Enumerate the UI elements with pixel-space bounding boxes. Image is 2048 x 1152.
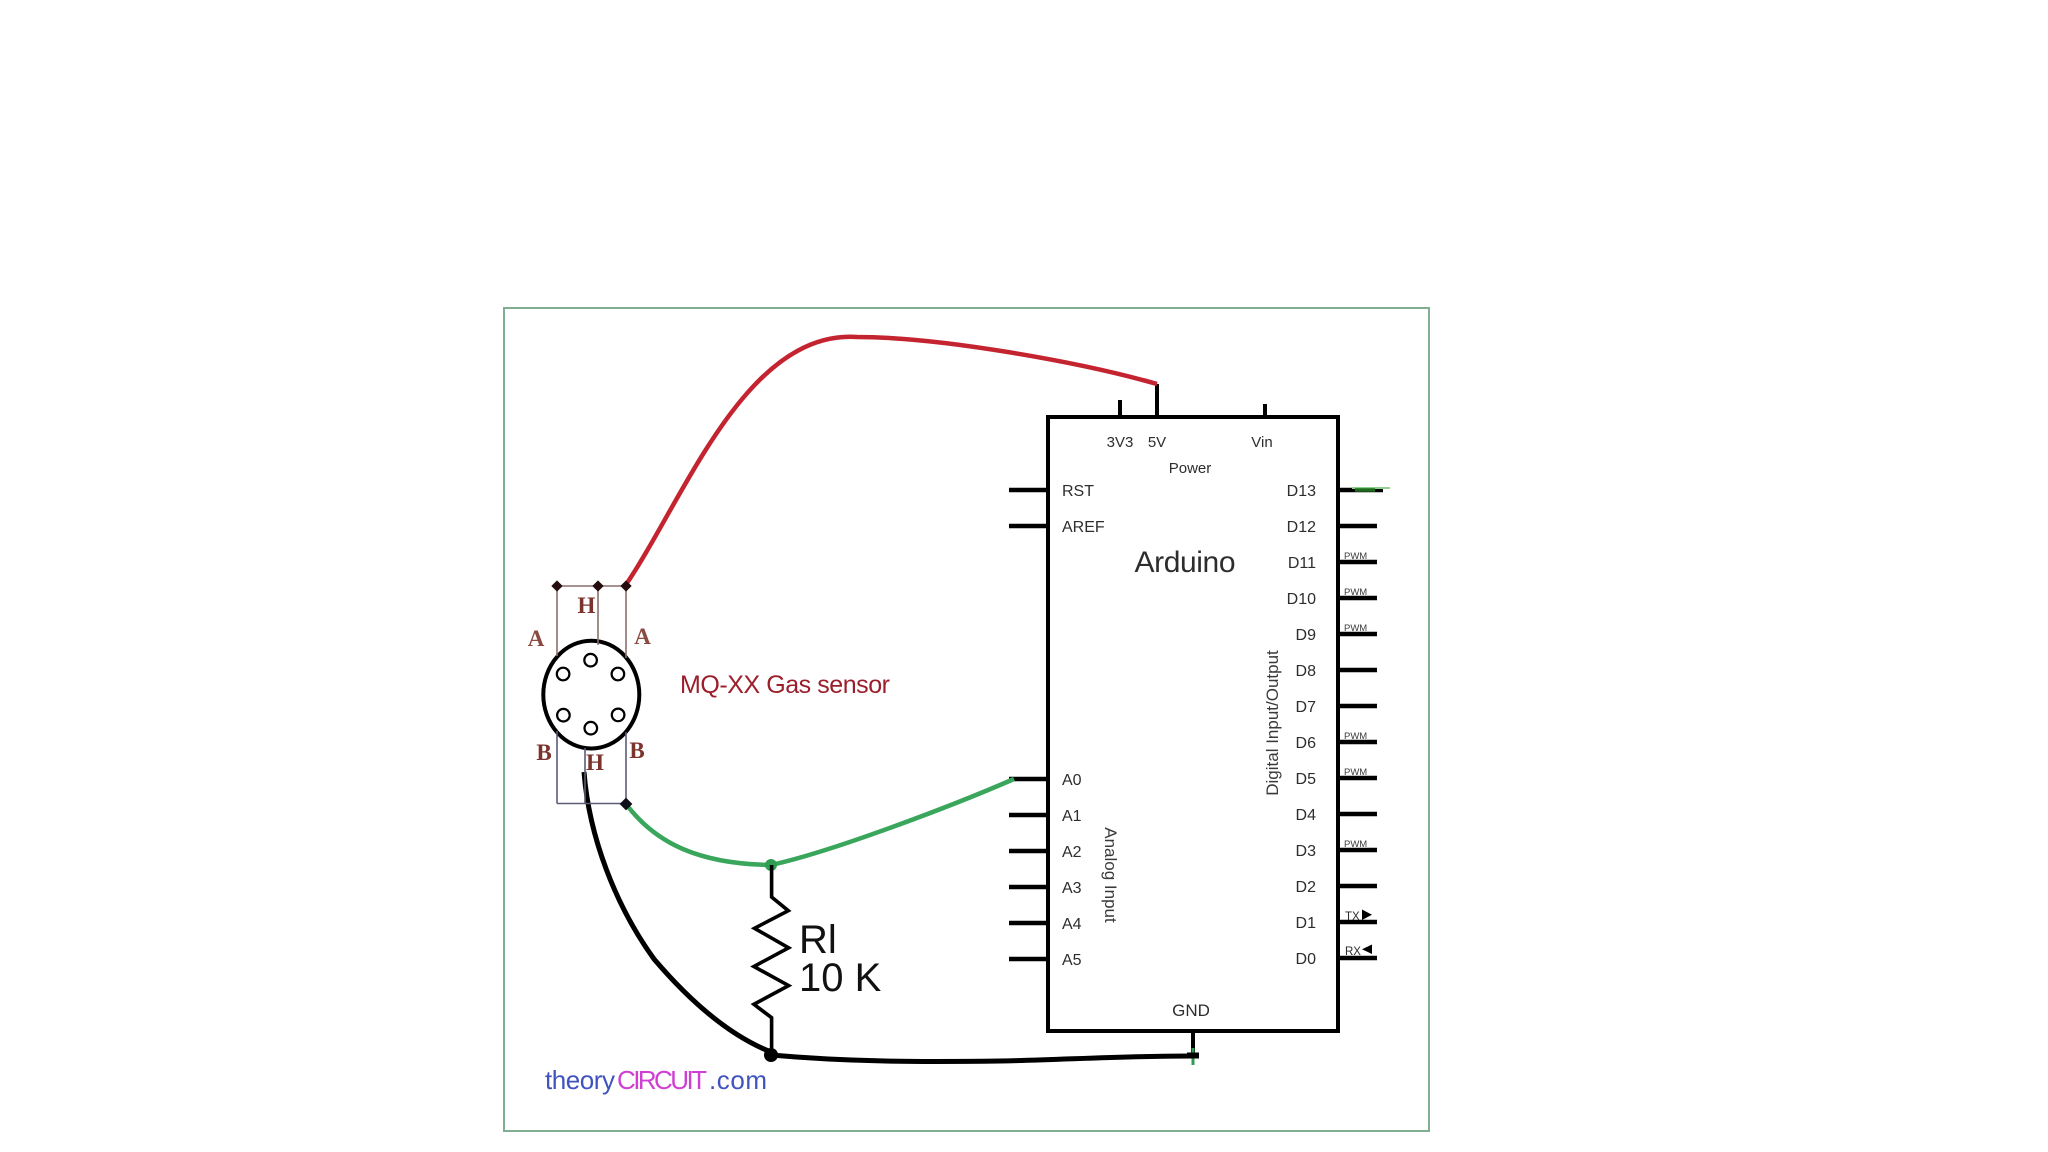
svg-text:RX: RX	[1345, 946, 1361, 958]
svg-text:AREF: AREF	[1062, 519, 1105, 536]
svg-text:D7: D7	[1296, 699, 1317, 716]
svg-text:A5: A5	[1062, 952, 1082, 969]
svg-text:theory: theory	[545, 1065, 615, 1095]
pin AREF	[1009, 519, 1105, 536]
pin D0	[1296, 945, 1377, 969]
pin D10	[1287, 587, 1377, 608]
pin 3V3	[1107, 400, 1134, 451]
pin 5V	[1148, 384, 1166, 451]
pin A1	[1009, 808, 1082, 825]
node green junction	[765, 859, 777, 871]
svg-text:Arduino: Arduino	[1135, 546, 1236, 579]
svg-text:D3: D3	[1296, 843, 1317, 860]
pin D1	[1296, 910, 1377, 933]
pin D11	[1288, 551, 1377, 572]
wire black sensor to junction	[584, 772, 771, 1052]
arduino U1 body	[1048, 417, 1338, 1031]
svg-text:PWM: PWM	[1344, 587, 1367, 598]
svg-text:A4: A4	[1062, 916, 1082, 933]
svg-text:D0: D0	[1296, 951, 1317, 968]
svg-text:GND: GND	[1172, 1001, 1210, 1020]
svg-text:H: H	[586, 750, 604, 775]
pin A5	[1009, 952, 1082, 969]
node sensor top pins	[551, 580, 631, 591]
svg-text:3V3: 3V3	[1107, 434, 1134, 451]
svg-text:D5: D5	[1296, 771, 1317, 788]
pin D12	[1287, 519, 1377, 536]
pin D7	[1296, 699, 1377, 716]
pin GND	[1172, 1001, 1210, 1056]
node black junction	[764, 1048, 778, 1062]
svg-text:TX: TX	[1345, 911, 1360, 923]
svg-text:D11: D11	[1288, 555, 1316, 572]
svg-text:D6: D6	[1296, 735, 1317, 752]
pin D4	[1296, 807, 1377, 824]
svg-text:A: A	[528, 626, 545, 651]
svg-text:PWM: PWM	[1344, 839, 1367, 850]
pin A0	[1009, 772, 1082, 789]
svg-text:PWM: PWM	[1344, 623, 1367, 634]
svg-text:Analog Input: Analog Input	[1101, 827, 1120, 923]
sensor bottom pin wires	[557, 731, 626, 804]
svg-text:D9: D9	[1296, 627, 1317, 644]
svg-text:D13: D13	[1287, 483, 1316, 500]
node sensor bottom-right pin	[620, 798, 633, 811]
svg-text:5V: 5V	[1148, 434, 1166, 451]
svg-text:B: B	[536, 740, 551, 765]
wire red 5V	[625, 337, 1157, 586]
svg-text:10 K: 10 K	[799, 956, 882, 1000]
pin D2	[1296, 879, 1377, 896]
wire black junction to GND	[771, 1055, 1193, 1061]
svg-text:PWM: PWM	[1344, 551, 1367, 562]
pin D3	[1296, 839, 1377, 860]
svg-text:.com: .com	[709, 1065, 767, 1095]
pin A2	[1009, 844, 1082, 861]
svg-text:A3: A3	[1062, 880, 1082, 897]
svg-text:A0: A0	[1062, 772, 1082, 789]
svg-text:H: H	[578, 593, 596, 618]
svg-text:PWM: PWM	[1344, 767, 1367, 778]
pin A3	[1009, 880, 1082, 897]
sensor pin holes	[557, 654, 625, 735]
label theoryCIRCUIT.com	[545, 1065, 767, 1095]
pin D6	[1296, 731, 1377, 752]
svg-text:PWM: PWM	[1344, 731, 1367, 742]
svg-text:A1: A1	[1062, 808, 1082, 825]
svg-text:A2: A2	[1062, 844, 1082, 861]
svg-text:D4: D4	[1296, 807, 1317, 824]
svg-text:D2: D2	[1296, 879, 1317, 896]
svg-text:MQ-XX Gas sensor: MQ-XX Gas sensor	[680, 671, 890, 699]
svg-text:D10: D10	[1287, 591, 1316, 608]
node GND green tick	[1192, 1048, 1195, 1065]
svg-text:D12: D12	[1287, 519, 1316, 536]
pin Vin	[1251, 404, 1272, 451]
pin D9	[1296, 623, 1377, 644]
sensor top pin wires	[557, 586, 626, 658]
svg-text:Vin: Vin	[1251, 434, 1272, 451]
svg-text:Digital Input/Output: Digital Input/Output	[1263, 650, 1282, 796]
wire green A0	[626, 779, 1014, 865]
gas sensor MQ1 body	[543, 641, 639, 749]
svg-text:CIRCUIT: CIRCUIT	[617, 1065, 707, 1095]
svg-text:B: B	[629, 738, 644, 763]
svg-text:D8: D8	[1296, 663, 1317, 680]
svg-text:RST: RST	[1062, 483, 1094, 500]
svg-text:A: A	[634, 624, 651, 649]
svg-text:Power: Power	[1169, 460, 1212, 477]
pin D8	[1296, 663, 1377, 680]
svg-text:D1: D1	[1296, 915, 1317, 932]
pin A4	[1009, 916, 1082, 933]
pin D13	[1287, 483, 1390, 500]
pin RST	[1009, 483, 1094, 500]
pin D5	[1296, 767, 1377, 788]
resistor Rl leads and zigzag	[754, 865, 789, 1055]
